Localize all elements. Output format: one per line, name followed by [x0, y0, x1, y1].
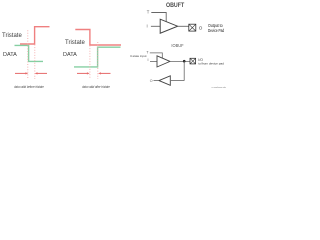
wire dimension arrow left-side (left diagram): [15, 72, 28, 74]
svg-text:Tristate: Tristate: [65, 40, 85, 46]
svg-text:I: I: [147, 24, 148, 29]
wire T input (IOBUF): [150, 53, 163, 59]
svg-text:O: O: [150, 79, 153, 83]
svg-text:to/from device pad: to/from device pad: [198, 61, 224, 65]
svg-text:DATA: DATA: [3, 52, 17, 58]
wire output O (IOBUF input buffer): [154, 80, 160, 82]
wire T input (OBUFT): [151, 13, 166, 22]
wire output O (OBUFT): [178, 25, 190, 27]
buffer U2 IOBUF output triangle: [157, 56, 170, 67]
wire dimension arrow right-side (left diagram): [35, 72, 47, 74]
svg-text:DATA: DATA: [63, 52, 77, 58]
svg-text:Device Pad: Device Pad: [208, 28, 225, 33]
wire Tristate waveform middle (high then low): [75, 30, 121, 46]
wire dimension arrow left-side (middle diagram): [77, 72, 90, 74]
svg-text:IOBUF: IOBUF: [171, 43, 183, 48]
wire DATA waveform middle (low then high): [74, 47, 121, 67]
svg-text:I: I: [148, 58, 149, 62]
buffer U3 IOBUF input triangle: [159, 76, 170, 86]
buffer U1 OBUFT triangle: [160, 19, 177, 33]
svg-text:T: T: [146, 50, 149, 54]
wire I input (OBUFT): [151, 25, 160, 27]
node marker dotted line at DATA transition (middle): [97, 42, 99, 79]
node marker dotted line at Tristate transition (middle): [89, 46, 91, 80]
svg-text:O: O: [199, 25, 203, 30]
svg-text:T: T: [147, 10, 150, 15]
svg-text:data valid before tristate: data valid before tristate: [14, 85, 44, 89]
pad symbol I/O pad (IOBUF): [190, 58, 196, 64]
wire output buffer to pad (IOBUF): [170, 60, 190, 62]
wire I input (IOBUF): [150, 60, 157, 62]
node annotation Output to Device Pad: [208, 23, 225, 33]
svg-text:Tristate: Tristate: [2, 33, 22, 39]
node marker dotted line at Tristate transition (left): [34, 45, 36, 80]
wire pad to input buffer vertical (IOBUF): [183, 61, 185, 80]
wire dimension arrow right-side (middle diagram): [98, 72, 110, 74]
svg-text:cs.swarthmore.edu: cs.swarthmore.edu: [212, 86, 227, 89]
svg-text:OBUFT: OBUFT: [166, 2, 184, 9]
node junction dot (IOBUF): [183, 60, 186, 63]
svg-text:data valid after tristate: data valid after tristate: [82, 85, 110, 89]
node marker dotted line at DATA transition (left): [27, 30, 29, 79]
svg-text:3-state input: 3-state input: [130, 54, 147, 58]
pad symbol output pad (OBUFT): [189, 24, 196, 31]
wire Tristate waveform left (low then high): [20, 27, 50, 44]
wire input buffer feed horizontal (IOBUF): [171, 80, 184, 82]
wire DATA waveform left (high then low): [15, 45, 44, 61]
